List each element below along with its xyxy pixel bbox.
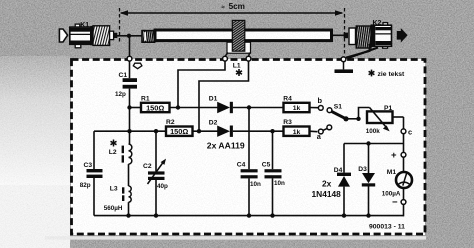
- wire K1 tip to coax: [117, 35, 142, 37]
- node: L1 left terminal: [223, 56, 228, 61]
- wire top of D3 D4: [344, 143, 404, 145]
- coax braid cap: [142, 31, 155, 43]
- node: junction R1 left: [127, 105, 131, 109]
- note: zie tekst: [369, 70, 405, 78]
- wire plus to meter: [403, 157, 405, 173]
- resistor R2: [166, 119, 193, 136]
- resistor R1: [141, 95, 170, 112]
- node: junction C1/L2: [127, 129, 131, 133]
- switch S1: [317, 96, 349, 141]
- capacitor C4: [237, 108, 261, 216]
- resistor R4: [283, 95, 318, 112]
- resistor R3: [283, 119, 317, 136]
- node: terminal minus: [401, 200, 406, 205]
- node: junction L1a/R1: [176, 105, 180, 109]
- dimension line 5cm: [120, 8, 345, 56]
- wire S1 to P1: [346, 118, 359, 120]
- potentiometer P1: [366, 105, 404, 135]
- node: C1 entry terminal: [127, 56, 132, 61]
- wire minus to ground rail: [403, 204, 405, 216]
- wire down to C1 terminal: [129, 36, 131, 57]
- circuit box (white, dashed border): [71, 59, 425, 235]
- wire L1 left lead: [178, 61, 225, 108]
- node: junction C5/rail: [270, 213, 274, 217]
- node: junction P1 wiper: [356, 117, 360, 121]
- node: terminal plus: [401, 152, 406, 157]
- node: junction D3 top: [366, 141, 370, 145]
- meter M1: [382, 169, 412, 198]
- label L1: [233, 63, 242, 76]
- ground: [335, 62, 354, 73]
- node: junction L3/rail: [126, 213, 130, 217]
- label 2x 1N4148: [312, 179, 342, 199]
- marker arrow at C1 input: [133, 63, 142, 68]
- node: braid ground terminal: [341, 57, 346, 62]
- node: junction C2/rail: [154, 213, 158, 217]
- wire c to meter column: [403, 134, 405, 153]
- wire rail D1 (node A to D1 anode): [130, 107, 142, 109]
- node: terminal c: [401, 129, 406, 134]
- K1 connector: [59, 22, 117, 48]
- capacitor C3: [80, 131, 103, 215]
- wire L1 right lead: [199, 61, 249, 131]
- inductor L1 wound on coax: [225, 20, 251, 56]
- strip under box bottom: [45, 236, 426, 239]
- node: junction D2/C5: [270, 129, 274, 133]
- capacitor C2 (trimmer): [143, 131, 168, 215]
- node: junction C2 top: [154, 129, 158, 133]
- left margin fade to white: [0, 0, 1, 1]
- node: junction D1/C4: [247, 105, 251, 109]
- node: junction D4/rail: [342, 213, 346, 217]
- node: junction D3/rail: [366, 213, 370, 217]
- diode D4: [334, 144, 351, 216]
- coax tube: [155, 30, 332, 41]
- diode D2: [209, 119, 284, 137]
- inductor L2: [109, 131, 132, 164]
- node: junction C4/rail: [247, 213, 251, 217]
- diode D3: [358, 144, 375, 216]
- node: L1 right terminal: [246, 56, 251, 61]
- wire ground rail bottom: [94, 215, 404, 217]
- node: junction dot K1/C1: [127, 34, 131, 38]
- wire L2 to L3: [128, 164, 130, 186]
- inductor L3: [104, 186, 131, 216]
- wire: K2 braid to ground: [348, 48, 379, 59]
- K2 connector: [333, 20, 408, 48]
- node: junction L1b/R2: [197, 129, 201, 133]
- wire wiper loop: [359, 108, 370, 119]
- capacitor C1: [115, 61, 137, 131]
- wire rail D2: [94, 130, 166, 132]
- wire meter to minus: [403, 188, 405, 200]
- capacitor C5: [262, 131, 285, 215]
- diode D1: [209, 96, 284, 114]
